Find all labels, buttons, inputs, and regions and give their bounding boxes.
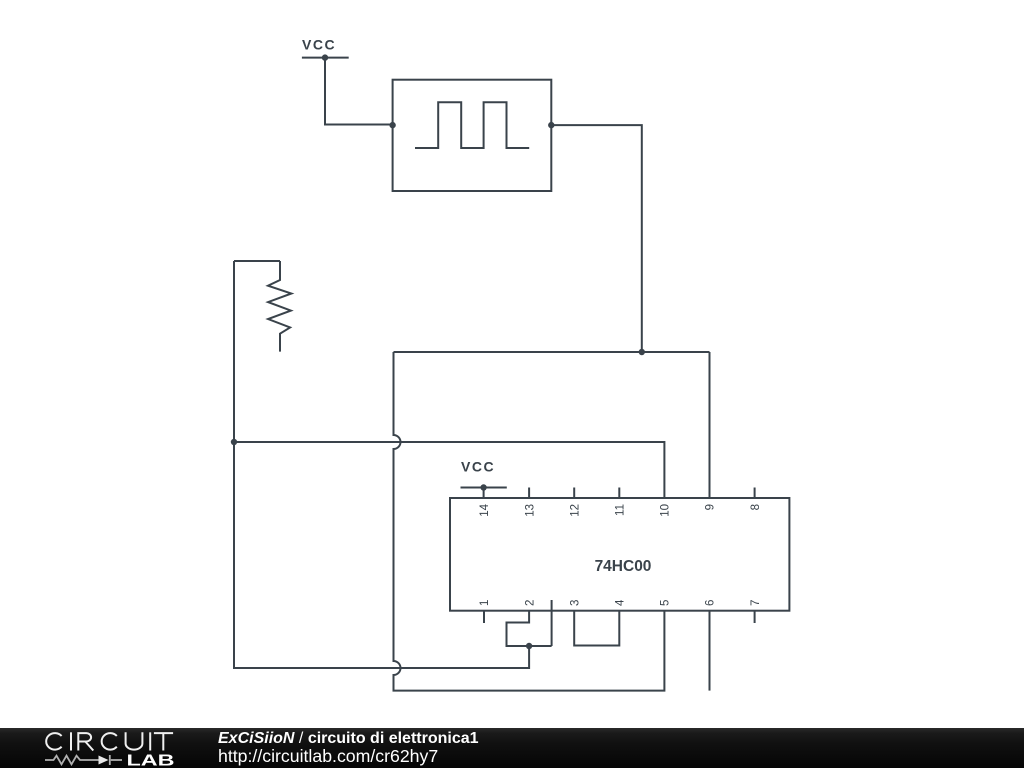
wire pin 6: [709, 611, 711, 691]
footer credit line: [218, 731, 479, 747]
footer bar: [0, 728, 1024, 768]
junction left: [231, 439, 237, 445]
pin 13 stub: [528, 488, 530, 499]
wire pins 3-4 bridge: [574, 611, 619, 646]
pin 8 stub: [754, 488, 756, 499]
svg-text:7: 7: [750, 600, 762, 606]
wire bus horizontal: [394, 351, 710, 353]
junction on bus: [639, 349, 645, 355]
svg-text:6: 6: [705, 600, 717, 606]
wire to pin 10: [234, 442, 664, 498]
svg-text:8: 8: [750, 504, 762, 510]
svg-text:VCC: VCC: [461, 459, 495, 475]
wire V1 output down to bus: [551, 125, 642, 352]
svg-text:4: 4: [615, 599, 627, 606]
pin 7 stub: [754, 611, 756, 623]
svg-text:13: 13: [524, 504, 536, 517]
junction pin2 net: [526, 643, 532, 649]
svg-text:9: 9: [705, 504, 717, 510]
svg-text:VCC: VCC: [302, 37, 336, 53]
wire left vertical: [234, 261, 529, 668]
logo CIRCUIT (hand-drawn thin letters): [46, 732, 173, 750]
wire left bracket top: [234, 260, 280, 262]
node V1 output port: [548, 122, 554, 128]
resistor R1: [268, 261, 291, 352]
svg-text:1: 1: [479, 600, 491, 606]
svg-text:10: 10: [660, 504, 672, 517]
pin 12 stub: [573, 488, 575, 499]
IC U1 74HC00: [450, 498, 789, 611]
svg-text:14: 14: [479, 503, 491, 516]
wire VCC to V1 input: [325, 58, 393, 125]
svg-text:5: 5: [660, 600, 672, 606]
wire stray vertical: [551, 600, 553, 646]
pin 1 stub: [483, 611, 485, 623]
power VCC (at pin 14): [461, 484, 507, 498]
node V1 input port: [389, 122, 395, 128]
svg-text:74HC00: 74HC00: [595, 558, 652, 575]
voltage source V1 (square wave box): [393, 80, 552, 191]
power VCC (top): [302, 54, 349, 60]
wire long vertical with hops to pin 5: [394, 352, 665, 691]
pin 11 stub: [618, 488, 620, 499]
square wave symbol: [415, 102, 529, 148]
wire to pin 9: [709, 352, 711, 498]
footer url: [218, 748, 438, 765]
svg-text:11: 11: [615, 504, 627, 516]
svg-text:3: 3: [569, 600, 581, 606]
logo resistor-diode squiggle: [45, 755, 122, 765]
svg-text:LAB: LAB: [127, 753, 175, 768]
wire pin2 jumper: [507, 611, 552, 646]
svg-text:2: 2: [524, 600, 536, 606]
svg-text:12: 12: [569, 504, 581, 517]
